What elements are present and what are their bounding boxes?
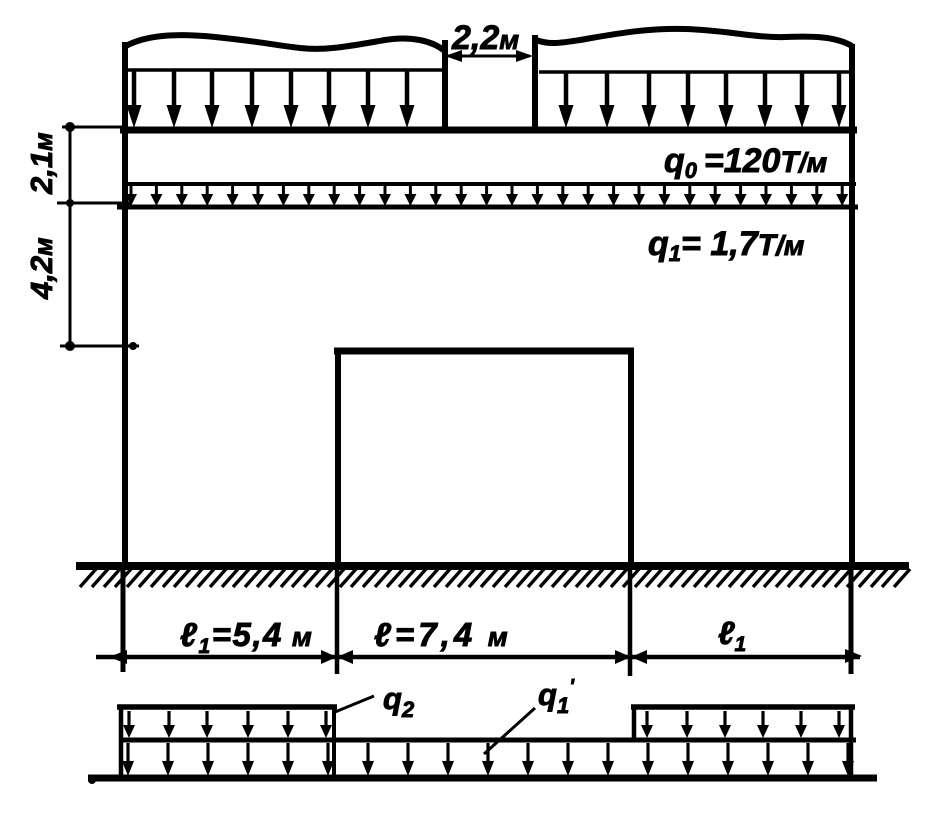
opening left jamb <box>337 348 338 674</box>
label l1 = 5,4 m <box>180 616 313 658</box>
left slab right edge (gap left side) <box>442 40 448 131</box>
bottom dimension line <box>96 655 860 660</box>
q2 right block left edge <box>632 707 637 742</box>
q2 load arrows right block top row <box>641 711 845 738</box>
q1prime level line <box>119 738 856 743</box>
q2 left block right edge <box>332 707 336 776</box>
svg-text:ℓ=7,4 м: ℓ=7,4 м <box>374 616 512 653</box>
q0 band top chord line <box>120 127 857 134</box>
distributed load arrows over left slab <box>127 71 415 128</box>
distributed load arrows over right slab <box>559 73 847 128</box>
q2 leader line <box>335 696 374 712</box>
wall left edge <box>123 131 125 672</box>
wall top line under q1 arrows <box>117 205 858 210</box>
opening right jamb <box>630 348 631 676</box>
label 4,2 m (rotated) <box>24 237 59 300</box>
extension line at wall top level <box>57 199 131 207</box>
label l = 7,4 m <box>374 616 512 653</box>
label l1 (right) <box>718 615 746 656</box>
2,2 m dimension line in gap <box>445 50 533 62</box>
dimension arrowheads <box>109 649 862 664</box>
right slab wavy top outline <box>536 29 852 46</box>
svg-text:2,1м: 2,1м <box>24 132 59 195</box>
label 2,1 m (rotated) <box>24 132 59 195</box>
wall right edge <box>851 44 852 674</box>
left slab wavy top outline <box>124 35 446 52</box>
q2 right block top line <box>631 704 855 710</box>
left slab left edge <box>122 42 128 131</box>
left slab soffit line <box>128 68 443 72</box>
right slab left edge (gap right side) <box>532 35 538 131</box>
q1prime leader line <box>484 708 535 754</box>
opening top lintel line <box>334 348 634 355</box>
q2 left block left edge <box>119 707 124 779</box>
bottom diagram baseline <box>88 776 877 784</box>
q2 load arrows left block top row <box>123 711 332 738</box>
label q1prime <box>538 676 575 718</box>
extension line at q0 top level <box>62 122 122 132</box>
ground line <box>76 562 909 570</box>
q2 right block right edge <box>849 707 854 779</box>
label q2 <box>383 681 415 722</box>
q2 left block top line <box>117 704 337 710</box>
q1 distributed load small arrows <box>125 186 848 206</box>
svg-text:2,2м: 2,2м <box>451 19 519 57</box>
label q1 = 1,7 t/m <box>648 225 805 266</box>
q1prime load arrows bottom row <box>122 743 854 776</box>
label q0 = 120 t/m <box>664 142 828 183</box>
left dimension vertical line <box>69 124 72 349</box>
q0 band bottom line <box>122 182 856 186</box>
label 2,2 m <box>451 19 519 57</box>
svg-text:4,2м: 4,2м <box>24 237 59 300</box>
ground hatching <box>80 569 910 587</box>
extension line at opening top level <box>60 341 139 351</box>
right slab soffit line <box>539 70 849 74</box>
